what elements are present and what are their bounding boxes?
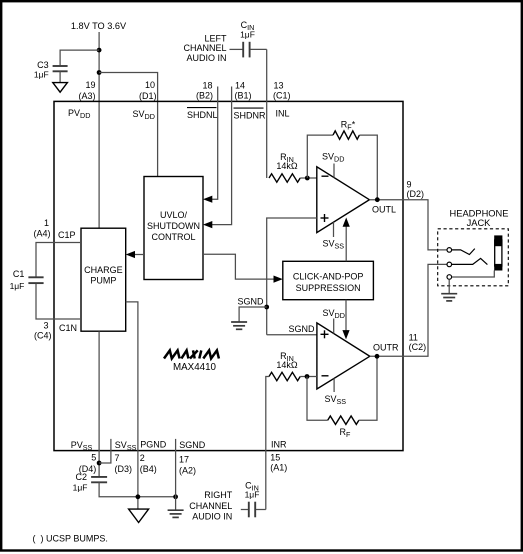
svg-text:(D2): (D2) [407,189,425,199]
svg-text:SGND: SGND [237,297,264,307]
wire PVSS pin 5 [98,331,100,476]
svg-text:CLICK-AND-POP: CLICK-AND-POP [293,272,364,282]
wire SVSS stub left op-amp [333,222,335,237]
svg-text:RIGHT: RIGHT [204,490,233,500]
capacitor C2 [73,472,107,493]
svg-text:1μF: 1μF [245,489,260,499]
svg-text:1: 1 [44,218,49,228]
pin 13 (C1) labels [273,80,291,100]
wire OUTL output [369,200,447,250]
svg-text:(D3): (D3) [115,464,133,474]
capacitor CIN right [241,481,266,518]
svg-text:(A4): (A4) [33,228,50,238]
svg-text:(C2): (C2) [409,342,427,352]
minus sign left op-amp [322,175,329,177]
svg-text:15: 15 [270,453,280,463]
wire SVDD stub left op-amp [333,164,335,178]
resistor RIN left 14k [269,152,300,182]
RIGHT CHANNEL AUDIO IN label [189,490,233,522]
pin name SHDNR with overbar [234,108,267,120]
svg-text:PGND: PGND [140,440,167,450]
svg-text:( ) UCSP BUMPS.: ( ) UCSP BUMPS. [33,534,108,544]
plus sign left op-amp [321,214,329,222]
resistor RF right [328,416,359,439]
node junction dot supply/C3 [97,48,102,53]
CHARGE PUMP box U3 [81,228,126,331]
svg-text:UVLO/: UVLO/ [160,210,188,220]
wire SVSS pin 7 [99,439,111,463]
IC MAX4410 main box [54,101,403,450]
svg-text:(D4): (D4) [79,464,97,474]
svg-text:SHDNL: SHDNL [187,110,218,120]
node dot right inverting input [305,374,310,379]
pin 10 (D1) labels [139,80,157,101]
arrowhead SHDNR into UVLO [203,221,212,228]
pin 1 (A4) labels [33,218,50,238]
wire PGND from charge pump [126,302,138,509]
ground jack symbol [441,294,457,301]
svg-text:1μF: 1μF [34,70,49,80]
arrowhead into charge pump [126,251,135,258]
wire feedback left to output [359,135,377,200]
svg-text:2: 2 [140,453,145,463]
svg-text:JACK: JACK [467,218,492,228]
svg-text:(A1): (A1) [270,462,287,472]
wire RIN to inverting input left [300,177,317,179]
pin 19 (A3) labels [78,80,95,101]
capacitor C3 [34,60,68,80]
node dot PVSS/SVSS [97,461,102,466]
wire feedback right [307,377,328,421]
node dot SGND [264,305,269,310]
minus sign right op-amp [322,375,329,377]
pin 14 (B1) labels [235,80,252,100]
MAXIM logo [164,350,219,358]
wire RIN right to inverting input [300,376,317,378]
svg-text:C1P: C1P [58,230,76,240]
node dot SGND rail [173,494,178,499]
arrowhead up into left op-amp [343,218,350,227]
wire plus input left op-amp to SGND [267,218,317,335]
jack plug symbol [494,235,502,270]
wire click-and-pop to left op-amp [345,226,347,262]
svg-text:14kΩ: 14kΩ [276,360,298,370]
svg-text:C3: C3 [37,60,49,70]
wire feedback right to output [359,356,377,420]
plus sign right op-amp [321,330,329,338]
svg-text:11: 11 [409,333,418,343]
svg-text:OUTL: OUTL [372,204,396,214]
svg-text:1μF: 1μF [10,281,25,291]
svg-text:5: 5 [91,452,96,462]
UVLO/SHUTDOWN CONTROL box U2 [144,177,203,280]
wire INL pin 13 [266,49,268,178]
svg-text:(A3): (A3) [78,91,95,101]
HEADPHONE JACK label [450,209,509,228]
node dot PGND rail [136,494,141,499]
arrowhead down into right op-amp [342,330,349,339]
svg-text:(B1): (B1) [235,90,252,100]
svg-text:9: 9 [407,180,412,190]
svg-text:1μF: 1μF [73,483,88,493]
svg-text:PUMP: PUMP [90,276,116,286]
svg-text:AUDIO IN: AUDIO IN [186,53,226,63]
jack switch 1 [452,249,475,255]
CLICK-AND-POP SUPPRESSION box U4 [283,261,374,299]
svg-text:C1: C1 [13,269,25,279]
svg-text:3: 3 [43,320,48,330]
svg-text:13: 13 [274,80,284,90]
pin 15 (A1) labels [270,453,287,473]
op-amp U5 right triangle [317,323,370,389]
arrowhead into click-and-pop [274,276,283,283]
svg-text:CHARGE: CHARGE [84,265,123,275]
svg-text:19: 19 [85,80,95,90]
wire sleeve to plug [452,271,494,278]
wire SHDNR pin 14 [207,87,232,225]
svg-text:1μF: 1μF [240,29,255,39]
node dot OUTR [375,354,380,359]
pin 3 (C4) labels [34,320,52,340]
resistor RIN right 14k [269,351,300,381]
svg-text:SGND: SGND [179,440,206,450]
wire OUTR output [370,264,447,356]
wire SHDNL pin 18 [207,87,218,200]
wire C3 to ground [59,71,61,82]
wire feedback left vertical [307,135,333,178]
jack ring contact circle [447,262,452,267]
wire C3 branch [60,50,99,65]
svg-text:AUDIO IN: AUDIO IN [192,512,232,522]
svg-text:SGND: SGND [288,324,315,334]
svg-text:7: 7 [115,453,120,463]
resistor RF* left [333,119,359,139]
wire click-and-pop to right op-amp [345,300,347,332]
pin 17 (A2) labels [179,455,196,476]
svg-text:(B2): (B2) [196,90,213,100]
svg-text:1.8V TO 3.6V: 1.8V TO 3.6V [71,21,127,31]
svg-text:INL: INL [276,109,290,119]
wire C2 to ground rail [99,482,176,497]
headphone jack dashed box [438,229,509,286]
wire supply to SVDD pin [99,73,158,177]
op-amp U1 left triangle [317,167,370,233]
svg-text:10: 10 [145,80,155,90]
pin 18 (B2) labels [196,80,213,100]
svg-text:(C4): (C4) [34,330,52,340]
svg-text:MAX4410: MAX4410 [173,362,217,373]
svg-text:14kΩ: 14kΩ [276,161,298,171]
pin 9 (D2) labels [407,180,425,200]
svg-text:14: 14 [235,80,245,90]
pin 5 (D4) labels [79,452,97,474]
svg-text:(A2): (A2) [179,465,196,475]
jack tip contact circle [447,248,452,253]
wire jack ground stem [448,279,450,293]
svg-text:17: 17 [179,455,189,465]
wire supply vertical PVDD [98,32,100,228]
capacitor CIN left [230,20,267,58]
node dot OUTL [375,197,380,202]
svg-text:CHANNEL: CHANNEL [183,43,226,53]
jack switch 2 [452,258,488,264]
wire SVSS stub right op-amp [333,378,335,392]
svg-text:CONTROL: CONTROL [151,232,195,242]
ground SGND symbol bottom [168,510,184,517]
pin 7 (D3) labels [115,453,133,474]
pin name SHDNL with overbar [187,108,218,120]
svg-text:LEFT: LEFT [204,33,227,43]
ground SGND symbol mid [231,322,247,329]
svg-text:C1N: C1N [59,323,77,333]
svg-text:(D1): (D1) [139,91,157,101]
wire UVLO to charge pump [129,254,145,256]
LEFT CHANNEL AUDIO IN label [183,33,227,63]
arrowhead SHDNL into UVLO [203,196,212,203]
svg-text:SHDNR: SHDNR [234,111,267,121]
wire SGND pin 17 [175,439,177,510]
svg-text:18: 18 [202,80,212,90]
wire SGND to plus input right op-amp [267,334,317,336]
svg-text:SUPPRESSION: SUPPRESSION [296,283,361,293]
svg-text:SHUTDOWN: SHUTDOWN [147,221,200,231]
wire INR vertical pin 15 [266,377,269,510]
pin 2 (B4) labels [140,453,157,474]
jack sleeve contact circle [447,275,452,280]
ground PGND triangle at C3 [53,83,68,93]
svg-text:CHANNEL: CHANNEL [189,501,232,511]
node dot left inverting input [305,176,310,181]
wire UVLO to click-and-pop [203,254,276,279]
svg-text:(C1): (C1) [273,90,291,100]
pin 11 (C2) labels [409,333,427,353]
wire SGND node to ground [239,307,267,322]
node junction dot supply/SVDD [97,70,102,75]
ground PGND triangle bottom [129,509,149,522]
capacitor C1 [10,243,81,320]
wire SVDD stub right op-amp [333,319,335,334]
svg-text:INR: INR [271,440,287,450]
svg-text:OUTR: OUTR [373,343,399,353]
svg-text:(B4): (B4) [140,464,157,474]
